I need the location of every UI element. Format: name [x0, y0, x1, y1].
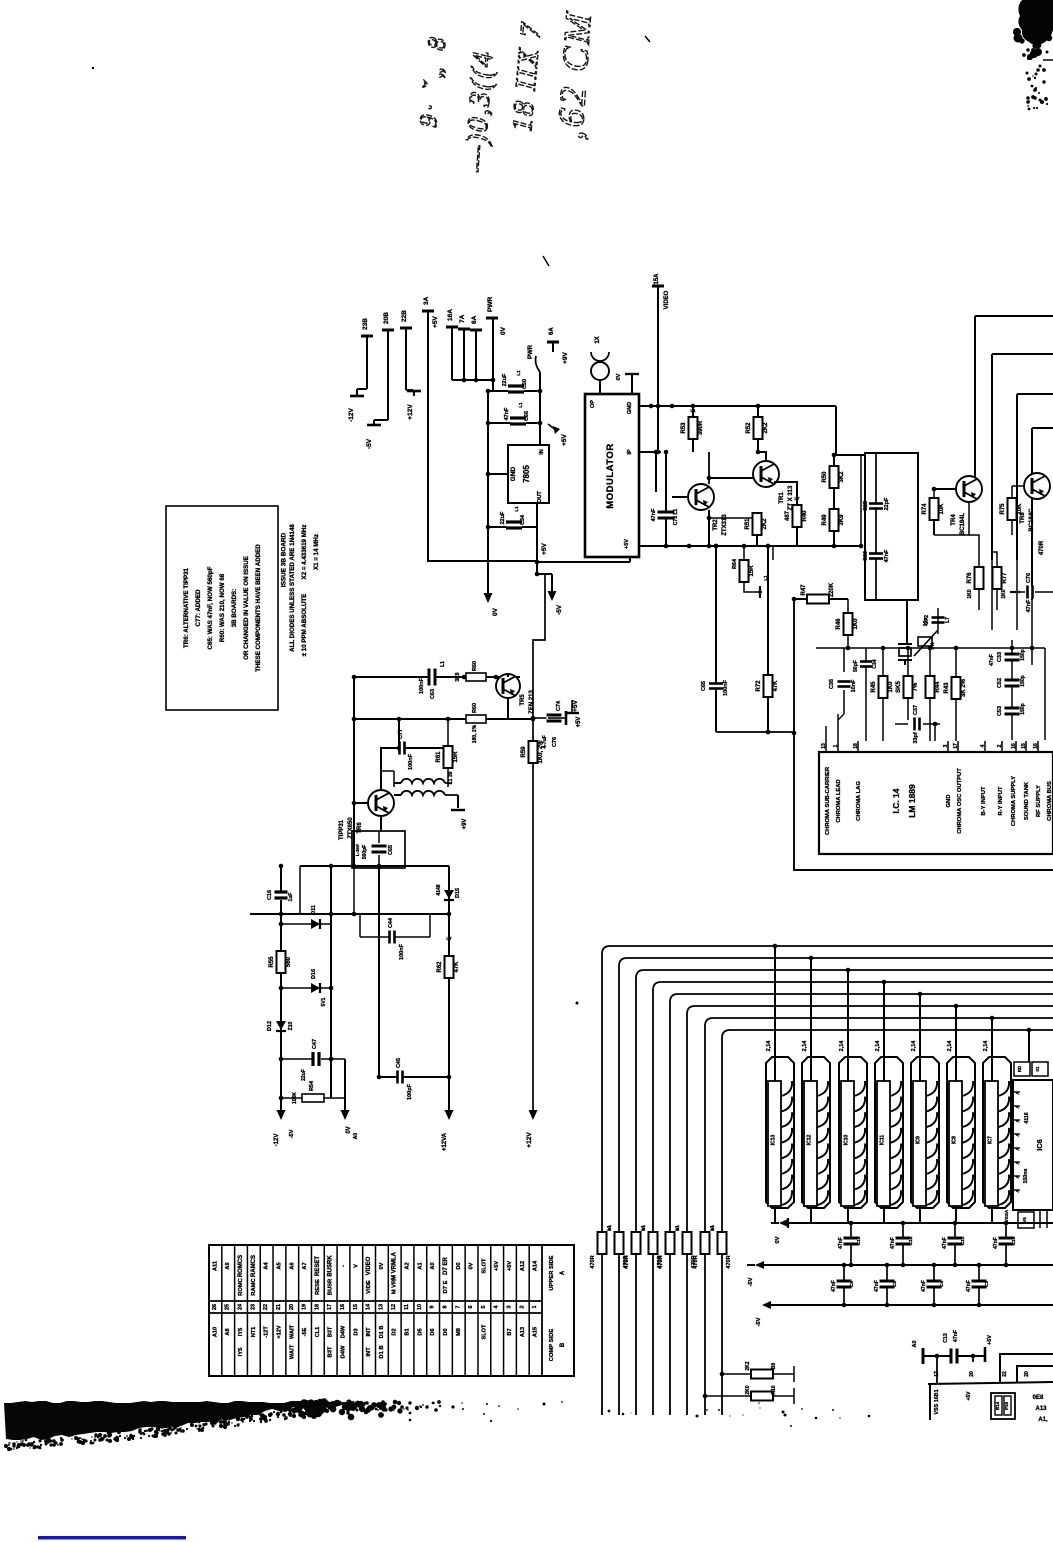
svg-text:C66: C66 — [524, 411, 530, 421]
svg-text:47nF: 47nF — [989, 654, 995, 666]
svg-text:D6: D6 — [430, 1328, 436, 1335]
svg-text:+5V: +5V — [541, 542, 548, 554]
svg-text:+5V: +5V — [432, 315, 439, 327]
svg-text:B1: B1 — [641, 1225, 646, 1231]
svg-text:TR2: TR2 — [713, 519, 719, 531]
svg-text:-12V: -12V — [274, 1134, 280, 1147]
svg-text:GND: GND — [510, 466, 517, 481]
svg-text:10: 10 — [417, 1304, 423, 1310]
svg-text:47nF: 47nF — [921, 1280, 927, 1292]
svg-text:11: 11 — [404, 1304, 410, 1310]
svg-text:C53: C53 — [997, 706, 1003, 716]
svg-text:5: 5 — [481, 1306, 487, 1309]
svg-text:V5: V5 — [1022, 1217, 1027, 1223]
svg-text:A2: A2 — [405, 1262, 411, 1269]
svg-text:A: A — [1015, 1189, 1020, 1193]
svg-text:0E8: 0E8 — [1033, 1395, 1044, 1401]
svg-text:A: A — [1015, 1091, 1020, 1095]
svg-text:13: 13 — [378, 1304, 384, 1310]
svg-text:INT: INT — [366, 1327, 372, 1337]
svg-text:15R: 15R — [453, 751, 459, 763]
svg-text:L7: L7 — [446, 936, 452, 941]
svg-text:20B: 20B — [383, 312, 390, 324]
svg-text:BC184L: BC184L — [960, 512, 966, 535]
svg-text:A0: A0 — [353, 1133, 359, 1140]
svg-text:IC8: IC8 — [952, 1136, 958, 1144]
svg-text:C44: C44 — [388, 917, 394, 928]
svg-text:2K0: 2K0 — [745, 1385, 751, 1394]
svg-text:R-Y INPUT: R-Y INPUT — [998, 786, 1004, 815]
svg-text:A11: A11 — [212, 1261, 218, 1271]
svg-text:C25: C25 — [863, 501, 869, 511]
svg-text:47nF: 47nF — [966, 1280, 972, 1292]
svg-text:M VRMLA: M VRMLA — [392, 1251, 398, 1280]
svg-text:BUSR: BUSR — [328, 1278, 334, 1295]
svg-text:B1: B1 — [405, 1328, 411, 1335]
svg-text:WAIT: WAIT — [289, 1344, 295, 1359]
svg-text:TR4: TR4 — [951, 514, 957, 526]
svg-text:IC12: IC12 — [807, 1135, 813, 1146]
svg-text:-5V: -5V — [756, 1317, 762, 1326]
svg-text:R52: R52 — [746, 422, 752, 434]
svg-text:47nF: 47nF — [953, 1330, 959, 1342]
svg-text:16: 16 — [1033, 743, 1039, 749]
svg-text:C4: C4 — [939, 1281, 945, 1287]
svg-text:B3T: B3T — [328, 1346, 334, 1357]
svg-text:3K9: 3K9 — [839, 514, 845, 526]
svg-text:D12: D12 — [267, 1021, 273, 1031]
svg-text:15: 15 — [1021, 743, 1027, 749]
svg-text:R61: R61 — [436, 751, 442, 763]
svg-text:467: 467 — [785, 510, 791, 521]
svg-text:C13: C13 — [856, 1236, 862, 1245]
svg-text:3: 3 — [943, 744, 949, 747]
svg-text:23B: 23B — [362, 318, 369, 330]
svg-text:25: 25 — [225, 1304, 231, 1310]
svg-text:IP: IP — [627, 449, 633, 455]
svg-text:47nF: 47nF — [890, 1237, 896, 1249]
svg-text:A9: A9 — [225, 1262, 231, 1269]
svg-text:CHROMA SUPPLY: CHROMA SUPPLY — [1011, 776, 1017, 826]
svg-text:2K2: 2K2 — [745, 1361, 751, 1370]
svg-text:470R: 470R — [693, 1255, 699, 1268]
svg-text:47nF: 47nF — [831, 1280, 837, 1292]
svg-text:+5V: +5V — [494, 1261, 500, 1271]
svg-text:A4: A4 — [264, 1262, 270, 1270]
svg-text:PWR: PWR — [487, 297, 494, 312]
svg-text:33pf: 33pf — [913, 732, 919, 743]
svg-text:A: A — [1015, 1147, 1020, 1151]
svg-text:1K0: 1K0 — [853, 618, 859, 630]
svg-text:2,14: 2,14 — [947, 1040, 953, 1052]
svg-text:C34: C34 — [872, 659, 878, 668]
svg-text:C76: C76 — [552, 737, 558, 747]
svg-text:22B: 22B — [401, 310, 408, 322]
svg-text:10K: 10K — [939, 503, 945, 515]
svg-text:22uF: 22uF — [500, 511, 506, 524]
svg-text:A: A — [1015, 1161, 1020, 1165]
svg-text:VIDEO: VIDEO — [366, 1256, 372, 1275]
svg-text:C50: C50 — [522, 379, 528, 389]
svg-text:17: 17 — [953, 743, 959, 749]
svg-text:47K: 47K — [454, 961, 460, 973]
svg-text:THESE COMPONENTS HAVE BEEN ADD: THESE COMPONENTS HAVE BEEN ADDED — [255, 544, 262, 672]
svg-text:7A: 7A — [459, 314, 466, 323]
svg-text:D0: D0 — [456, 1262, 462, 1269]
svg-text:R47: R47 — [801, 584, 807, 596]
svg-text:D11: D11 — [311, 905, 317, 915]
svg-text:-12T: -12T — [264, 1326, 270, 1338]
svg-text:D4W: D4W — [340, 1325, 346, 1338]
svg-text:R76: R76 — [967, 572, 973, 584]
svg-text:C5: C5 — [892, 1281, 898, 1287]
svg-text:BC184C: BC184C — [1029, 508, 1035, 532]
svg-text:RAMC: RAMC — [251, 1277, 257, 1295]
svg-text:R46: R46 — [836, 618, 842, 630]
svg-text:D7 E: D7 E — [443, 1280, 449, 1293]
svg-text:IC6: IC6 — [1035, 1139, 1044, 1151]
svg-text:C47: C47 — [312, 1039, 318, 1049]
svg-text:47nF: 47nF — [838, 1237, 844, 1249]
svg-text:R10: R10 — [771, 1385, 777, 1394]
svg-text:9· ˇ„ 8: 9· ˇ„ 8 — [415, 32, 452, 128]
svg-text:R43: R43 — [944, 682, 950, 694]
svg-text:ROMC: ROMC — [238, 1277, 244, 1296]
svg-text:C13: C13 — [943, 1333, 949, 1343]
svg-text:D1 B: D1 B — [379, 1345, 385, 1358]
svg-text:B8: B8 — [771, 1363, 777, 1370]
svg-text:-: - — [340, 1265, 346, 1267]
svg-text:LM 1889: LM 1889 — [907, 784, 917, 818]
svg-text:+9V: +9V — [562, 351, 569, 363]
svg-text:3: 3 — [506, 1306, 512, 1309]
svg-text:L1: L1 — [516, 370, 521, 376]
svg-text:PWR: PWR — [528, 344, 534, 359]
svg-text:3A: 3A — [423, 296, 430, 305]
svg-text:0V: 0V — [346, 1126, 352, 1133]
svg-text:A12: A12 — [520, 1261, 526, 1271]
svg-text:R62: R62 — [437, 961, 443, 973]
svg-text:L7: L7 — [794, 496, 800, 501]
svg-text:10K: 10K — [1017, 503, 1023, 515]
svg-text:7805: 7805 — [522, 465, 531, 483]
svg-text:1: 1 — [833, 744, 839, 747]
svg-text:C37: C37 — [913, 705, 919, 715]
svg-text:B1: B1 — [675, 1225, 680, 1231]
svg-text:OR CHANGED IN VALUE ON ISSUE: OR CHANGED IN VALUE ON ISSUE — [243, 556, 250, 660]
svg-text:150p: 150p — [1020, 675, 1026, 686]
svg-text:ZEN 213: ZEN 213 — [529, 690, 535, 714]
svg-text:C11: C11 — [960, 1236, 966, 1245]
svg-text:+12V: +12V — [526, 1132, 533, 1148]
svg-text:-12V: -12V — [348, 407, 355, 421]
svg-text:-5V: -5V — [556, 604, 563, 615]
svg-text:C65: C65 — [388, 845, 394, 855]
svg-text:CHROMA BUS: CHROMA BUS — [1047, 781, 1053, 821]
svg-text:+5V: +5V — [576, 717, 582, 728]
svg-text:0V: 0V — [469, 1262, 475, 1269]
svg-text:ISSUE 3B BOARD: ISSUE 3B BOARD — [281, 532, 288, 587]
svg-text:2: 2 — [519, 1306, 525, 1309]
svg-text:15R: 15R — [749, 565, 755, 577]
svg-text:A0: A0 — [912, 1340, 918, 1347]
svg-text:47nF: 47nF — [504, 407, 510, 420]
svg-text:+9V: +9V — [462, 819, 468, 830]
svg-text:150p: 150p — [1020, 649, 1026, 660]
svg-text:C73 L1: C73 L1 — [673, 509, 679, 526]
svg-text:CHROMA SUB-CARRIER: CHROMA SUB-CARRIER — [825, 766, 831, 835]
svg-text:18: 18 — [314, 1304, 320, 1310]
svg-text:100pF: 100pF — [407, 1083, 413, 1100]
svg-text:R64: R64 — [732, 558, 738, 569]
svg-text:L1 39: L1 39 — [448, 771, 454, 784]
svg-text:47nF: 47nF — [993, 1237, 999, 1249]
svg-text:D2: D2 — [392, 1328, 398, 1335]
svg-text:9: 9 — [430, 1306, 436, 1309]
svg-text:L1: L1 — [440, 661, 446, 667]
svg-text:COMP SIDE: COMP SIDE — [549, 1329, 555, 1362]
svg-text:6A: 6A — [471, 315, 478, 324]
svg-text:A1: A1 — [417, 1262, 423, 1269]
svg-text:TR6: ALTERNATIVE TIPP31: TR6: ALTERNATIVE TIPP31 — [183, 567, 190, 648]
svg-text:ALL DIODES UNLESS STATED ARE 1: ALL DIODES UNLESS STATED ARE 1N4148 — [289, 524, 296, 652]
svg-text:6: 6 — [468, 1306, 474, 1309]
svg-text:VIDE: VIDE — [366, 1280, 372, 1294]
svg-text:20: 20 — [1024, 1371, 1030, 1377]
svg-text:D4W: D4W — [340, 1345, 346, 1358]
svg-text:1K0: 1K0 — [1001, 589, 1007, 598]
svg-text:R40: R40 — [802, 510, 808, 522]
svg-text:SOUND TANK: SOUND TANK — [1024, 781, 1030, 820]
svg-text:470R: 470R — [590, 1255, 596, 1268]
svg-text:22: 22 — [263, 1304, 269, 1310]
svg-text:RESET: RESET — [315, 1256, 321, 1276]
svg-text:19: 19 — [302, 1304, 308, 1310]
svg-text:CHROMA LAG: CHROMA LAG — [856, 781, 862, 821]
svg-text:10nF: 10nF — [851, 679, 857, 692]
svg-text:7: 7 — [455, 1306, 461, 1309]
svg-text:OUT: OUT — [537, 491, 543, 503]
svg-text:150ns: 150ns — [1023, 1169, 1029, 1184]
svg-text:6A: 6A — [549, 327, 555, 335]
svg-text:VSSA: VSSA — [1004, 1209, 1009, 1222]
svg-text:2,14: 2,14 — [875, 1040, 881, 1052]
svg-text:16: 16 — [340, 1304, 346, 1310]
svg-text:A15: A15 — [533, 1327, 539, 1337]
svg-text:17: 17 — [327, 1304, 333, 1310]
svg-text:+5V: +5V — [507, 1261, 513, 1271]
svg-text:IC7: IC7 — [988, 1136, 994, 1144]
svg-text:CL1: CL1 — [315, 1327, 321, 1338]
svg-text:M VR: M VR — [392, 1279, 398, 1294]
svg-text:C74: C74 — [556, 700, 562, 711]
svg-text:A0: A0 — [430, 1262, 436, 1269]
svg-text:47nF: 47nF — [942, 1237, 948, 1249]
svg-text:18 IIX 7: 18 IIX 7 — [506, 20, 548, 133]
svg-text:IC10: IC10 — [844, 1135, 850, 1146]
svg-text:470R: 470R — [1039, 540, 1045, 555]
svg-text:+12V: +12V — [407, 404, 414, 420]
svg-text:13: 13 — [821, 743, 827, 749]
svg-text:IC13: IC13 — [771, 1135, 777, 1146]
svg-text:1uF: 1uF — [288, 893, 294, 902]
svg-text:0V: 0V — [500, 326, 507, 335]
svg-text:2: 2 — [997, 744, 1003, 747]
svg-text:L1: L1 — [514, 506, 519, 512]
svg-text:L1: L1 — [763, 575, 768, 581]
svg-text:IC11: IC11 — [880, 1135, 886, 1146]
svg-text:R60: R60 — [472, 703, 478, 713]
svg-text:A: A — [1015, 1133, 1020, 1137]
svg-text:SK5: SK5 — [896, 681, 902, 693]
svg-text:R60: WAS 210, NOW 68: R60: WAS 210, NOW 68 — [219, 573, 226, 642]
svg-text:R55: R55 — [269, 956, 275, 968]
svg-text:2,14: 2,14 — [983, 1040, 989, 1052]
svg-text:C6: C6 — [849, 1281, 855, 1287]
svg-text:+5V: +5V — [987, 1335, 993, 1345]
svg-text:IC9: IC9 — [916, 1136, 922, 1144]
svg-text:560pF: 560pF — [362, 845, 368, 859]
svg-text:4: 4 — [980, 744, 986, 747]
svg-text:12: 12 — [391, 1304, 397, 1310]
svg-text:C77: ADDED: C77: ADDED — [195, 589, 202, 626]
svg-text:RESE: RESE — [315, 1279, 321, 1295]
svg-text:VIDEO: VIDEO — [664, 290, 670, 309]
svg-text:ZTX313: ZTX313 — [722, 514, 728, 536]
svg-text:100nF: 100nF — [408, 753, 414, 770]
svg-text:3K 2%: 3K 2% — [961, 678, 967, 697]
svg-text:100nF: 100nF — [723, 679, 729, 696]
svg-text:8: 8 — [442, 1306, 448, 1309]
svg-text:C45: C45 — [396, 1058, 402, 1068]
svg-text:—)0,3((4: —)0,3((4 — [459, 49, 499, 173]
svg-text:UPPER SIDE: UPPER SIDE — [549, 1255, 555, 1290]
svg-text:24: 24 — [238, 1304, 244, 1310]
svg-text:R44: R44 — [935, 681, 941, 693]
svg-text:INT: INT — [366, 1347, 372, 1357]
svg-text:P18: P18 — [1004, 1402, 1009, 1410]
svg-text:22uF: 22uF — [502, 373, 508, 386]
svg-text:L1: L1 — [518, 402, 523, 408]
svg-text:-5V: -5V — [366, 438, 373, 449]
svg-text:C16: C16 — [267, 890, 273, 900]
svg-text:SLOT: SLOT — [481, 1258, 487, 1273]
svg-text:2,14: 2,14 — [766, 1040, 772, 1052]
svg-text:M8: M8 — [456, 1328, 462, 1336]
svg-text:+5V: +5V — [572, 699, 579, 711]
svg-text:1: 1 — [532, 1306, 538, 1309]
svg-text:A5: A5 — [276, 1262, 282, 1269]
svg-text:C76: C76 — [1026, 573, 1032, 583]
svg-text:3B BOARDS:: 3B BOARDS: — [231, 589, 238, 628]
svg-text:D15: D15 — [455, 888, 461, 898]
svg-text:GND: GND — [627, 402, 633, 414]
svg-text:RD: RD — [1017, 1066, 1022, 1072]
svg-text:R72: R72 — [756, 680, 762, 692]
svg-text:21: 21 — [276, 1304, 282, 1310]
svg-text:D7 ER: D7 ER — [443, 1256, 449, 1274]
svg-text:17: 17 — [934, 1371, 940, 1377]
svg-text:A1,: A1, — [1038, 1417, 1048, 1423]
svg-text:56pF: 56pF — [853, 660, 859, 672]
svg-text:2K2: 2K2 — [762, 518, 768, 530]
svg-text:-5V: -5V — [748, 1277, 754, 1286]
svg-text:B3T: B3T — [328, 1326, 334, 1337]
svg-text:A13: A13 — [520, 1327, 526, 1337]
svg-text:IN: IN — [539, 449, 545, 455]
svg-text:22: 22 — [1002, 1371, 1008, 1377]
svg-text:26: 26 — [212, 1304, 218, 1310]
svg-text:OP: OP — [590, 400, 596, 408]
svg-text:R59: R59 — [521, 746, 527, 758]
svg-text:L7: L7 — [945, 617, 951, 623]
svg-text:MODULATOR: MODULATOR — [605, 443, 616, 508]
svg-text:20: 20 — [289, 1304, 295, 1310]
svg-text:+5V: +5V — [624, 539, 630, 549]
svg-text:2,14: 2,14 — [802, 1040, 808, 1052]
svg-text:R51: R51 — [745, 518, 751, 530]
svg-text:23: 23 — [250, 1304, 256, 1310]
svg-text:470R: 470R — [658, 1255, 664, 1268]
svg-text:47nF: 47nF — [1026, 599, 1032, 612]
svg-text:B14: B14 — [995, 1401, 1000, 1410]
svg-text:47nF: 47nF — [874, 1280, 880, 1292]
svg-text:B1: B1 — [710, 1225, 715, 1231]
svg-text:220K: 220K — [829, 582, 835, 597]
svg-text:WAIT: WAIT — [289, 1324, 295, 1339]
svg-text:TIPP31: TIPP31 — [339, 819, 345, 840]
svg-text:D5: D5 — [417, 1328, 423, 1335]
svg-text:R54: R54 — [309, 1080, 315, 1091]
svg-text:D0: D0 — [443, 1328, 449, 1335]
svg-text:R45: R45 — [871, 681, 877, 693]
svg-text:A10: A10 — [212, 1327, 218, 1337]
svg-text:2,14: 2,14 — [911, 1040, 917, 1052]
svg-text:ROMCS: ROMCS — [238, 1255, 244, 1277]
svg-text:01: 01 — [1035, 1066, 1040, 1071]
svg-text:15: 15 — [353, 1304, 359, 1310]
svg-text:470R: 470R — [726, 1255, 732, 1268]
svg-text:1K0: 1K0 — [967, 589, 973, 598]
svg-text:1K0, 2%: 1K0, 2% — [538, 740, 544, 764]
svg-text:RF SUPPLY: RF SUPPLY — [1036, 785, 1042, 817]
svg-text:4: 4 — [494, 1306, 500, 1309]
svg-text:470R: 470R — [624, 1255, 630, 1268]
svg-text:16: 16 — [1011, 743, 1017, 749]
svg-text:R74: R74 — [922, 503, 928, 515]
svg-text:A6: A6 — [289, 1262, 295, 1269]
svg-text:16p: 16p — [923, 618, 929, 627]
svg-text:C33: C33 — [997, 652, 1003, 662]
svg-text:TR6: TR6 — [357, 822, 363, 834]
svg-text:4116: 4116 — [1024, 1112, 1030, 1123]
svg-text:C10: C10 — [1011, 1236, 1017, 1245]
svg-text:,62 CM: ,62 CM — [550, 9, 600, 141]
svg-text:TR5: TR5 — [520, 694, 526, 706]
svg-text:C3: C3 — [984, 1281, 990, 1287]
svg-text:GND: GND — [946, 795, 952, 808]
svg-text:R50: R50 — [822, 471, 828, 483]
svg-text:C60: C60 — [863, 551, 869, 561]
svg-text:A14: A14 — [533, 1260, 539, 1271]
svg-text:C52: C52 — [997, 678, 1003, 688]
svg-text:-5E: -5E — [302, 1327, 308, 1336]
svg-text:L-3nF: L-3nF — [355, 844, 360, 856]
svg-text:3K9: 3K9 — [455, 672, 461, 681]
svg-text:+12V: +12V — [276, 1325, 282, 1338]
svg-text:+5V: +5V — [561, 433, 568, 445]
svg-text:IY5: IY5 — [238, 1328, 244, 1336]
